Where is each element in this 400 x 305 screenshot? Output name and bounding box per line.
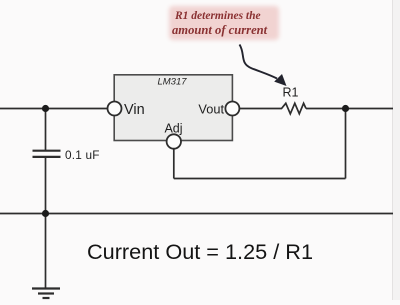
svg-text:R1 determines the: R1 determines the: [174, 10, 261, 22]
svg-text:Current Out = 1.25 / R1: Current Out = 1.25 / R1: [87, 239, 313, 264]
svg-text:amount of current: amount of current: [172, 23, 268, 37]
svg-text:R1: R1: [283, 86, 299, 100]
svg-text:0.1 uF: 0.1 uF: [65, 148, 100, 162]
svg-text:Vin: Vin: [124, 102, 145, 118]
svg-text:Vout: Vout: [198, 102, 224, 117]
svg-text:Adj: Adj: [164, 122, 182, 136]
svg-text:LM317: LM317: [157, 77, 187, 88]
